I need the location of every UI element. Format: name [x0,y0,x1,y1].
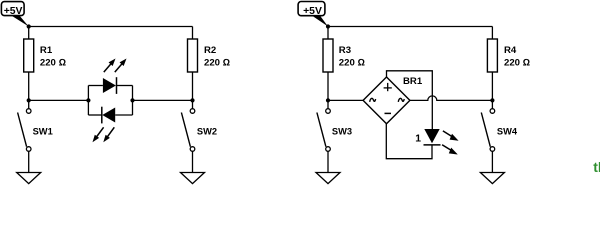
switch SW2 [181,109,217,152]
wire: LED cathode to bridge minus loop [386,124,432,159]
wire: middle rail left segment [29,99,89,101]
wire: bottom LED branch [88,114,101,116]
svg-text:th: th [593,159,600,175]
ground (SW4) [480,173,504,184]
svg-text:SW2: SW2 [197,127,217,137]
svg-text:R4: R4 [504,45,517,56]
wire: SW2 top lead [192,100,194,108]
ground (SW3) [316,173,340,184]
wire: R4 bottom lead [491,72,493,100]
wire: R4 top lead [491,27,493,40]
wire: top rail right circuit [328,26,492,28]
node: +5V junction (right) [326,24,330,28]
svg-text:SW4: SW4 [497,127,518,137]
svg-text:220 Ω: 220 Ω [339,58,365,69]
wire: SW2 to ground [192,151,194,172]
wire: R2 bottom lead [192,72,194,100]
power flag +5V (left) [1,2,28,27]
svg-text:1: 1 [415,134,421,145]
svg-text:220 Ω: 220 Ω [504,58,530,69]
ground (SW1) [17,173,41,184]
resistor R4 [487,39,530,72]
wire: middle rail bridge right with hop over [410,96,493,101]
svg-text:R1: R1 [40,45,53,56]
node: SW1 junction [27,98,31,102]
node: SW2 junction [190,98,194,102]
wire: middle rail right segment [133,99,193,101]
node: LED pair left junction [86,98,90,102]
wire: SW4 top lead [491,100,493,108]
svg-text:+5V: +5V [4,6,23,17]
bridge rectifier BR1 [363,76,423,124]
wire: SW1 to ground [28,151,30,172]
svg-text:R3: R3 [339,45,351,56]
node: SW3 junction [326,98,330,102]
wire: top LED branch [88,85,103,87]
wire: top rail left circuit [29,26,193,28]
power flag +5V (right) [298,2,328,27]
svg-text:220 Ω: 220 Ω [40,58,66,69]
node: SW4 junction [490,98,494,102]
wire: SW4 to ground [491,151,493,172]
node: LED pair right junction [130,98,134,102]
wire: R3 bottom lead [327,72,329,100]
wire: R1 bottom lead [28,72,30,100]
ground (SW2) [181,173,205,184]
resistor R2 [188,39,231,72]
wire: R3 top lead [327,27,329,40]
wire: SW1 top lead [28,100,30,108]
wire: bridge + output to LED (with corner) [387,71,433,129]
svg-text:SW3: SW3 [332,127,352,137]
svg-text:220 Ω: 220 Ω [204,58,230,69]
switch SW4 [481,109,518,152]
svg-text:BR1: BR1 [403,76,423,87]
switch SW3 [317,109,352,152]
wire: SW3 top lead [327,100,329,108]
svg-text:SW1: SW1 [33,127,53,137]
switch SW1 [18,109,53,152]
resistor R3 [323,39,365,72]
LED D1 (top, pointing right) [103,59,127,94]
wire: R2 top lead [192,27,194,40]
wire: LED pair left bar [87,86,89,116]
wire: middle rail to bridge left [328,99,363,101]
resistor R1 [24,39,66,72]
node: +5V junction (left) [27,24,31,28]
wire: R1 top lead [28,27,30,40]
wire: LED pair right bar [132,86,134,116]
LED D2 (bottom, pointing left) [93,107,116,143]
LED 1 (pointing down) [415,129,458,155]
svg-text:+5V: +5V [303,6,322,17]
svg-text:R2: R2 [204,45,216,56]
wire: SW3 to ground [327,151,329,172]
